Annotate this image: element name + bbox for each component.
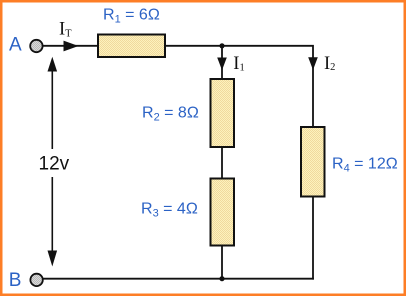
resistor R3 bbox=[211, 179, 235, 246]
label I1 bbox=[233, 54, 244, 74]
node A bbox=[9, 35, 43, 56]
label R3 = 4Ω bbox=[141, 201, 198, 220]
svg-text:R3 = 4Ω: R3 = 4Ω bbox=[141, 201, 198, 220]
junction node at bottom bbox=[219, 276, 224, 281]
bottom wire B to R4 branch bbox=[43, 278, 314, 280]
current arrow I2 bbox=[308, 57, 318, 70]
label 12v bbox=[39, 153, 70, 174]
label R4 = 12Ω bbox=[332, 156, 398, 175]
current arrow I1 bbox=[217, 58, 227, 71]
wire R2 to R3 bbox=[221, 147, 223, 179]
resistor R2 bbox=[211, 79, 235, 147]
svg-text:A: A bbox=[9, 35, 22, 56]
voltage arrow down (12v source, lower half) bbox=[48, 177, 58, 267]
wire R4 to bottom wire bbox=[312, 197, 314, 280]
label IT bbox=[59, 20, 72, 40]
svg-text:12v: 12v bbox=[39, 153, 70, 174]
wire R1 to top-right corner bbox=[166, 46, 313, 127]
node B bbox=[9, 270, 43, 291]
resistor R1 bbox=[98, 35, 165, 58]
junction node at top bbox=[219, 43, 224, 48]
svg-text:R2 = 8Ω: R2 = 8Ω bbox=[142, 105, 199, 124]
label R2 = 8Ω bbox=[142, 105, 199, 124]
label R1 = 6Ω bbox=[103, 7, 160, 26]
svg-text:R4 = 12Ω: R4 = 12Ω bbox=[332, 156, 398, 175]
wire junction down to R2 bbox=[221, 46, 223, 79]
wire A to R1 bbox=[43, 45, 98, 47]
voltage arrow up (12v source, upper half) bbox=[48, 57, 58, 149]
svg-text:B: B bbox=[9, 270, 22, 291]
current arrow IT bbox=[64, 41, 79, 52]
label I2 bbox=[324, 54, 335, 74]
resistor R4 bbox=[301, 127, 325, 197]
svg-text:R1 = 6Ω: R1 = 6Ω bbox=[103, 7, 160, 26]
wire R3 to bottom wire bbox=[221, 246, 223, 279]
